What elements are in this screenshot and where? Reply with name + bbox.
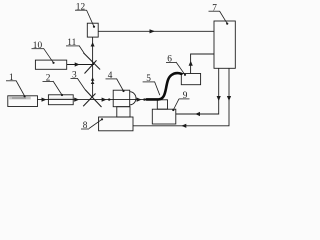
- svg-text:6: 6: [167, 55, 172, 65]
- svg-text:8: 8: [83, 121, 88, 131]
- svg-text:5: 5: [146, 74, 151, 84]
- svg-text:10: 10: [33, 41, 43, 51]
- svg-text:9: 9: [183, 91, 188, 101]
- svg-text:7: 7: [212, 3, 217, 13]
- svg-text:12: 12: [76, 2, 86, 12]
- svg-text:2: 2: [46, 74, 51, 84]
- svg-text:11: 11: [67, 38, 76, 48]
- svg-text:4: 4: [108, 71, 113, 81]
- svg-text:1: 1: [9, 73, 14, 83]
- svg-text:3: 3: [72, 71, 77, 81]
